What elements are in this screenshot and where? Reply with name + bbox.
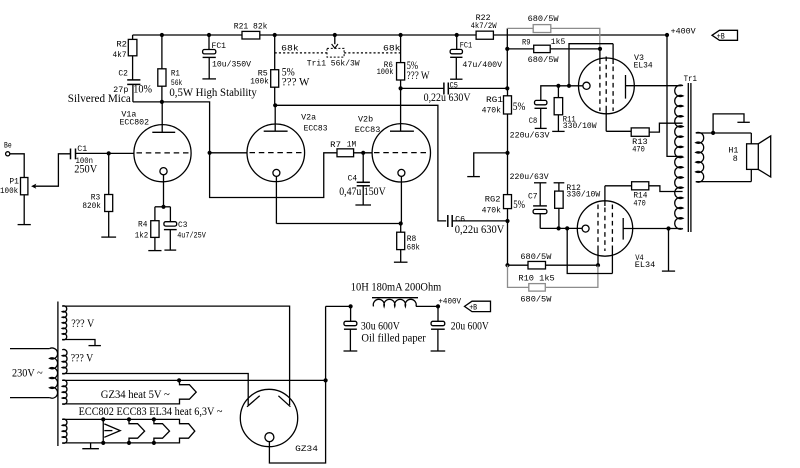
node Tri1 top [333, 33, 337, 37]
svg-text:+B: +B [717, 33, 725, 42]
svg-text:R4: R4 [138, 221, 148, 230]
resistor R10 [508, 261, 555, 283]
ground C4 [355, 186, 371, 205]
tube V3 g1 [599, 49, 601, 111]
wire V1a anode stem [161, 102, 163, 132]
tube GZ34 cathode [265, 433, 274, 442]
node R5 top [273, 33, 277, 37]
wire V3 anode to Tr1 [626, 85, 682, 87]
node chevron3 top [152, 417, 156, 421]
wire secondary bottom [696, 169, 752, 181]
node 5V to B+ [177, 378, 181, 382]
wire HT winding1 top to GZ34 plate [62, 306, 289, 405]
svg-text:470k: 470k [482, 206, 502, 215]
svg-text:10%: 10% [133, 84, 152, 96]
svg-text:5%: 5% [513, 199, 525, 211]
tube V3 [579, 58, 635, 114]
svg-text:ECC802 ECC83 EL34 heat 6,3V ~: ECC802 ECC83 EL34 heat 6,3V ~ [79, 406, 223, 418]
svg-text:Silvered Mica: Silvered Mica [68, 93, 131, 105]
svg-text:250V: 250V [74, 163, 98, 175]
resistor R7 [330, 140, 356, 156]
label Silvered Mica [68, 93, 131, 105]
svg-text:470: 470 [632, 146, 645, 155]
svg-text:68k: 68k [407, 243, 420, 252]
node speaker gnd tap [711, 131, 715, 135]
ground R3 [101, 212, 116, 238]
tube V4 g3 [611, 205, 613, 274]
node R9 left [505, 47, 509, 51]
label C1 250V [74, 163, 98, 175]
potentiometer P1 [0, 177, 36, 196]
node heater B+ junction [324, 378, 328, 382]
svg-text:Tr1: Tr1 [684, 75, 697, 84]
resistor R2 [113, 35, 137, 60]
wire V1a anode node [133, 102, 337, 198]
label +400V top [671, 27, 696, 36]
svg-text:C7: C7 [528, 193, 538, 202]
svg-text:R9: R9 [522, 38, 531, 47]
svg-text:30u 600V: 30u 600V [361, 321, 401, 333]
tube GZ34 plate left [247, 396, 260, 407]
resistor 680/5W top (gray) [533, 25, 551, 33]
wire gray 680 bottom loop [508, 265, 598, 287]
wire 68k dashed left [275, 52, 327, 54]
label 68k right [383, 44, 401, 53]
wire V3 cathode to g3 [569, 44, 613, 86]
svg-text:R1: R1 [171, 70, 180, 79]
label C2 tolerance 10% [133, 84, 152, 96]
label 68k left [281, 44, 299, 53]
svg-text:RG2: RG2 [485, 195, 501, 204]
svg-text:ECC83: ECC83 [355, 126, 381, 135]
svg-text:RG1: RG1 [486, 96, 503, 105]
wire riser to choke node [326, 305, 351, 307]
tube V3 label [634, 54, 653, 70]
svg-text:??? W: ??? W [407, 70, 430, 82]
tube GZ34 [240, 389, 297, 446]
resistor R12 [554, 183, 601, 229]
wire R13 to tap [649, 123, 682, 132]
wire V2b cathode stem [400, 176, 402, 223]
resistor R3 [82, 153, 112, 211]
node V4 cath R12 [557, 226, 561, 230]
node R1 top [160, 33, 164, 37]
svg-text:100k: 100k [0, 187, 18, 196]
svg-text:??? V: ??? V [71, 318, 95, 330]
node C8 wire R11 [556, 84, 560, 88]
node RG2-C6 [505, 219, 509, 223]
svg-text:220u/63V: 220u/63V [510, 132, 550, 141]
wire 5V winding to cathode node [179, 379, 326, 381]
svg-text:100k: 100k [377, 68, 394, 77]
wire RG2-C6 down to R10 [507, 221, 509, 265]
svg-text:680/5W: 680/5W [528, 56, 559, 65]
wire gray 680 top loop [507, 28, 600, 49]
label RG1 5% [513, 101, 526, 113]
svg-text:P1: P1 [9, 177, 19, 186]
svg-text:+400V: +400V [671, 27, 696, 36]
svg-text:C2: C2 [118, 70, 128, 79]
svg-text:ECC802: ECC802 [120, 119, 150, 128]
node RG mid [505, 151, 509, 155]
ground P1 [18, 195, 31, 225]
label C5 value [424, 92, 472, 104]
svg-text:330/10W: 330/10W [563, 122, 597, 131]
resistor R5 [250, 35, 279, 105]
tube V4 cathode [582, 225, 589, 232]
resistor R8 [397, 224, 420, 253]
svg-text:Tri1 56k/3W: Tri1 56k/3W [307, 60, 360, 69]
wire +HT top rail [133, 34, 667, 36]
wire V3 cathode to C8 [541, 86, 583, 101]
label C4 value [339, 186, 386, 198]
wire HT winding2 to GZ34 plate [62, 374, 248, 406]
wire V2a anode to C6 drop [275, 105, 446, 221]
svg-text:FC1: FC1 [460, 42, 473, 51]
label heater 6,3V [79, 406, 223, 418]
capacitor C7 [528, 183, 547, 229]
label C8 value [510, 132, 550, 141]
svg-text:V2b: V2b [358, 116, 373, 125]
transformer T2 6.3V winding [62, 419, 67, 443]
speaker H1 [728, 136, 770, 177]
wire C6 to RG2 [452, 220, 507, 222]
label GZ34 [295, 445, 318, 454]
node C1-R3 [107, 151, 111, 155]
label R5 5% [282, 66, 295, 78]
label R5 wattage [282, 77, 310, 89]
node chevron2 top [127, 417, 131, 421]
label 0,5W High Stability [169, 87, 257, 99]
wire 68k dashed right [344, 52, 401, 54]
transformer T2 primary 230V [10, 348, 58, 398]
svg-text:100k: 100k [250, 77, 269, 86]
label Tri1 value [307, 60, 360, 69]
transformer T2 5V winding [62, 380, 67, 404]
node R10 left [505, 263, 509, 267]
svg-text:5%: 5% [513, 101, 526, 113]
ground R11 [552, 115, 564, 132]
svg-text:Be: Be [4, 141, 12, 150]
label Tr1 [684, 75, 697, 84]
node FC1a top [207, 33, 211, 37]
svg-text:470k: 470k [482, 106, 502, 115]
ground R8 [394, 250, 408, 263]
inductor choke [373, 299, 416, 306]
label GZ34 heat [101, 389, 170, 401]
wire secondary top [696, 133, 752, 144]
transformer Tr1 core [688, 83, 691, 232]
wire C1 to V1a grid [76, 152, 135, 154]
node divider1 top [101, 417, 105, 421]
resistor R22 [471, 14, 497, 39]
capacitor C2 [113, 56, 140, 102]
node C8 wire g3 [567, 84, 571, 88]
wire cathode split [155, 207, 171, 222]
tube GZ34 plate right [278, 396, 290, 407]
wire GZ34 cathode to B+ riser [269, 306, 325, 463]
wire choke to +400V [416, 305, 438, 307]
resistor R11 [554, 86, 597, 131]
tube V3 g2 [605, 57, 607, 132]
svg-text:R21 82k: R21 82k [234, 23, 268, 32]
wire RG1 bottom [507, 114, 509, 195]
ground FC1a [202, 58, 216, 79]
wire V4 anode to Tr1 [623, 228, 681, 230]
inductor choke core [372, 297, 418, 299]
wire P1 wiper to C1 [34, 154, 71, 186]
wire RG mid to ground [474, 153, 508, 177]
capacitor 30u [344, 306, 401, 332]
capacitor C3 [164, 221, 206, 241]
wire V2b anode stem [400, 88, 402, 131]
svg-text:GZ34 heat 5V ~: GZ34 heat 5V ~ [101, 389, 170, 401]
node chevron3 bottom [152, 441, 156, 445]
svg-text:EL34: EL34 [634, 61, 653, 70]
label +400V psu [438, 297, 461, 306]
transformer Tr1 secondary [696, 132, 704, 182]
label R6 5% [407, 60, 419, 72]
resistor R4 [135, 221, 159, 241]
node V4 g1 [596, 263, 600, 267]
terminal +B top [712, 30, 738, 41]
resistor R21 [234, 23, 268, 39]
wire R9 to V3 g1 [550, 48, 600, 50]
svg-text:C1: C1 [77, 145, 87, 154]
label HT winding 2 [71, 353, 94, 365]
svg-text:R10 1k5: R10 1k5 [518, 274, 555, 283]
resistor R1 [158, 35, 183, 102]
node R8 top [399, 221, 403, 225]
bus chevron 3 [154, 419, 170, 443]
ground C8 [535, 108, 547, 128]
wire V2a cathode [276, 176, 400, 223]
svg-text:+B: +B [469, 304, 477, 313]
svg-text:0,22u 630V: 0,22u 630V [455, 224, 505, 236]
transformer T2 HT winding 2 [62, 349, 67, 373]
wire to V2a grid [210, 152, 248, 154]
ground C3 [164, 230, 176, 251]
svg-text:C4: C4 [348, 175, 358, 184]
svg-text:EL34: EL34 [635, 261, 656, 270]
node +400V psu [436, 304, 440, 308]
svg-text:1k5: 1k5 [551, 38, 566, 47]
svg-text:220u/63V: 220u/63V [510, 173, 549, 182]
tube V2b [372, 124, 430, 182]
ground HT center tap [89, 345, 101, 347]
label 230V [12, 368, 43, 380]
resistor RG1 [482, 88, 512, 115]
ground heater bus [82, 443, 99, 449]
node RG1 top [505, 86, 509, 90]
transformer T2 HT winding 1 [62, 306, 67, 340]
label C7 value [510, 173, 549, 182]
svg-text:R2: R2 [116, 41, 127, 50]
tube V1a [134, 125, 191, 182]
tube V2b label [355, 116, 381, 135]
svg-text:??? W: ??? W [282, 77, 310, 89]
ground FC1b [450, 57, 462, 79]
node V2a grid [208, 151, 212, 155]
wire R7 to V2b grid [354, 152, 373, 154]
capacitor C4 [348, 153, 370, 186]
node V2b anode (R6 bottom) [399, 86, 403, 90]
ground 20u [431, 329, 446, 351]
node C4 top [361, 151, 365, 155]
ground speaker [713, 114, 750, 133]
label 680/5W below R9 [528, 56, 559, 65]
node chevron2 bottom [127, 441, 131, 445]
svg-text:10H 180mA 200Ohm: 10H 180mA 200Ohm [351, 282, 442, 294]
wire RG1 node up to R9 [506, 28, 508, 88]
svg-text:V2a: V2a [301, 114, 316, 123]
svg-text:47u/400V: 47u/400V [462, 61, 502, 70]
wire HT center tap [62, 340, 95, 346]
wire R6 to C5 [401, 87, 444, 89]
terminal +B psu [465, 301, 491, 312]
wire V4 cathode to g3 [567, 228, 612, 273]
capacitor C8 [529, 100, 547, 126]
capacitor FC1 (10u/350V) [203, 35, 252, 69]
wire RG2 bottom [507, 209, 509, 221]
svg-text:0,5W High Stability: 0,5W High Stability [169, 87, 257, 99]
node V1a anode [160, 100, 164, 104]
svg-text:C3: C3 [178, 221, 188, 230]
svg-text:FC1: FC1 [212, 42, 227, 51]
svg-text:470: 470 [633, 199, 646, 208]
svg-text:20u 600V: 20u 600V [451, 321, 490, 333]
wire +400V to primary CT [667, 35, 683, 156]
svg-text:ECC83: ECC83 [304, 125, 328, 134]
svg-text:??? V: ??? V [71, 353, 94, 365]
svg-text:4k7: 4k7 [113, 51, 127, 60]
svg-text:C8: C8 [529, 117, 538, 126]
tube V1a ECC802 label [120, 111, 150, 128]
label R6 wattage [407, 70, 430, 82]
label 680/5W top [528, 15, 559, 24]
node V2a anode [273, 103, 277, 107]
svg-text:0,22u 630V: 0,22u 630V [424, 92, 472, 104]
node R6 top [399, 33, 403, 37]
label oil filled paper [361, 332, 426, 344]
bus GZ34 heater [62, 380, 196, 404]
wire V3 g2 to R13 [606, 130, 631, 132]
wire Be to P1 [10, 154, 24, 178]
svg-text:4u7/25V: 4u7/25V [177, 232, 206, 241]
tube V3 anode [625, 75, 627, 99]
resistor RG2 [482, 195, 512, 216]
bus chevron 2 [129, 419, 145, 443]
trimmer arrow [332, 35, 338, 48]
ground 30u [344, 329, 358, 351]
transformer Tr1 primary [675, 85, 683, 229]
heater arrow [104, 424, 120, 437]
wire V2a anode stem [274, 105, 276, 131]
node +400V [665, 33, 669, 37]
bus 6,3V heater [62, 419, 195, 443]
label C6 value [455, 224, 505, 236]
tube V3 g3 [612, 44, 614, 111]
capacitor C5 [444, 81, 458, 94]
resistor R13 [631, 128, 649, 155]
resistor R6 [377, 35, 405, 88]
svg-text:1M: 1M [347, 140, 356, 149]
terminal Be input [4, 141, 12, 156]
svg-text:680/5W: 680/5W [520, 296, 551, 305]
resistor R9 [507, 38, 565, 52]
tube V4 g2 [604, 186, 606, 251]
tube V3 cathode [583, 82, 590, 89]
wire V4 cathode bus [540, 227, 582, 229]
tube V2a [247, 124, 305, 182]
resistor 680/5W bottom (gray) [529, 284, 546, 292]
wire V4 g2 to R14 [605, 185, 632, 187]
svg-text:1k2: 1k2 [135, 231, 149, 240]
wire R14 to tap [649, 186, 683, 192]
trimmer Tri1 [327, 48, 344, 57]
svg-text:4k7/2W: 4k7/2W [471, 22, 497, 31]
svg-text:R3: R3 [91, 193, 101, 202]
svg-text:820k: 820k [82, 202, 101, 211]
svg-text:68k: 68k [281, 44, 299, 53]
tube V4 g1 [597, 205, 599, 266]
svg-text:Oil filled paper: Oil filled paper [361, 332, 426, 344]
node V1a cathode junction [161, 205, 165, 209]
ground Tr1 primary bottom [662, 229, 675, 272]
capacitor 20u [431, 306, 489, 332]
tube V2a label [301, 114, 327, 134]
wire V1a cathode [163, 175, 165, 207]
ground RG mid [467, 176, 480, 178]
node Tr1 primary bottom [666, 226, 670, 230]
svg-text:R7: R7 [330, 141, 341, 150]
ground R4 [148, 237, 161, 250]
svg-text:GZ34: GZ34 [295, 445, 318, 454]
svg-text:8: 8 [733, 155, 738, 164]
capacitor C6 [448, 215, 466, 227]
wire C5 to RG1 [448, 87, 507, 89]
label 680/5W above R10 [520, 253, 551, 262]
tube V4 [577, 201, 632, 256]
capacitor C1 [71, 145, 94, 166]
svg-text:680/5W: 680/5W [528, 15, 559, 24]
node 30u top [349, 304, 353, 308]
svg-text:68k: 68k [383, 44, 401, 53]
svg-text:10u/350V: 10u/350V [212, 60, 251, 69]
node divider1 bottom [101, 441, 105, 445]
resistor R14 [632, 182, 649, 209]
svg-text:+400V: +400V [438, 297, 461, 306]
wire R10 to V4 g1 [546, 264, 599, 266]
tube V4 anode [622, 218, 624, 240]
tube V4 label [635, 254, 656, 270]
transformer T2 core [57, 302, 59, 447]
label HT winding 1 [71, 318, 95, 330]
label choke value [351, 282, 442, 294]
label RG2 5% [513, 199, 525, 211]
node FC1b top [455, 33, 459, 37]
node V3 g1 [598, 47, 602, 51]
bus divider 1 [102, 419, 104, 443]
svg-text:230V ~: 230V ~ [12, 368, 43, 380]
svg-text:330/10W: 330/10W [566, 191, 600, 200]
capacitor FC1b (47u/400V) [450, 35, 502, 70]
node V4 cath g3 [565, 226, 569, 230]
label 680/5W bottom [520, 296, 551, 305]
